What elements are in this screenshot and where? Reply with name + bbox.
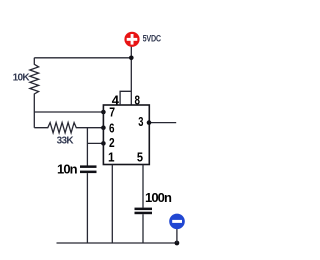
wire C1 to ground rail	[86, 173, 88, 243]
wire negative terminal stem	[176, 228, 178, 243]
wire pin 3 output	[149, 122, 176, 124]
wire branch to C1	[86, 128, 88, 166]
wire supply stem to pin 8	[130, 46, 132, 105]
wire pin 1 to ground rail	[111, 165, 113, 244]
svg-text:8: 8	[135, 94, 141, 108]
svg-text:33K: 33K	[57, 135, 75, 146]
node pin 6	[101, 125, 106, 130]
wire to pin 7	[34, 111, 103, 113]
wire top rail VCC	[34, 57, 131, 59]
svg-text:6: 6	[109, 122, 114, 136]
svg-text:1: 1	[108, 150, 115, 165]
wire pin 4 to pin 8 staple	[120, 91, 131, 105]
wire bottom ground rail	[57, 242, 177, 244]
wire C2 to ground rail	[142, 214, 144, 243]
op-amp U1 555 timer body	[103, 105, 149, 165]
terminal negative	[169, 214, 185, 230]
svg-text:5: 5	[137, 150, 143, 165]
node supply junction	[129, 56, 134, 61]
node pin 7	[101, 110, 106, 115]
svg-text:10K: 10K	[13, 72, 31, 83]
node ground rail end	[175, 241, 180, 246]
svg-text:100n: 100n	[145, 190, 172, 205]
svg-text:7: 7	[109, 105, 115, 119]
resistor R2 33K	[34, 123, 103, 133]
svg-text:5VDC: 5VDC	[143, 32, 161, 43]
capacitor C2 100n	[135, 208, 153, 215]
svg-text:10n: 10n	[57, 161, 78, 176]
wire pin 5 to C2	[142, 165, 144, 208]
terminal +5VDC	[124, 32, 139, 47]
wire to pin 2	[87, 142, 103, 144]
capacitor C1 10n	[80, 165, 97, 173]
node pin 3	[147, 120, 152, 125]
resistor R1 10K	[30, 58, 39, 128]
svg-text:2: 2	[109, 136, 115, 150]
svg-text:3: 3	[138, 115, 143, 129]
node pin 2	[101, 141, 106, 146]
